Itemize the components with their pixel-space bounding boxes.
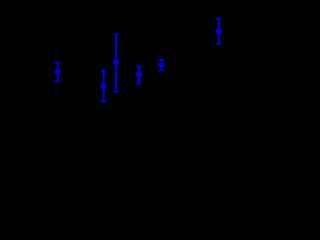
errorbar chart on black background — [0, 0, 231, 149]
error bar point 3 — [113, 33, 119, 92]
error bar point 1 — [55, 62, 61, 82]
error bar point 2 — [101, 70, 107, 103]
error bar point 4 — [136, 66, 142, 85]
error bar point 5 — [159, 59, 165, 71]
error bar point 6 — [216, 18, 222, 45]
